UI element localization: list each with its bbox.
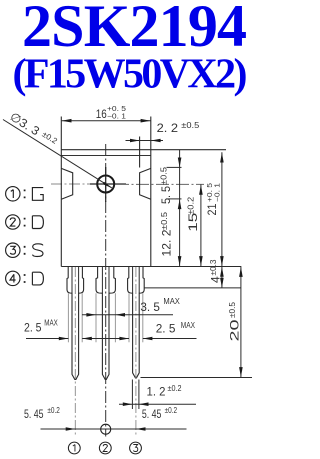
svg-text:(F15W50VX2): (F15W50VX2) <box>13 52 248 98</box>
svg-text:5. 5: 5. 5 <box>159 186 173 204</box>
svg-text:−0. 1: −0. 1 <box>214 183 221 202</box>
svg-text:±0.2: ±0.2 <box>47 406 60 415</box>
svg-text:±0.5: ±0.5 <box>228 301 237 318</box>
svg-text:+0. 5: +0. 5 <box>207 183 214 202</box>
svg-text:5. 45: 5. 45 <box>142 407 162 421</box>
svg-text:12. 2: 12. 2 <box>159 229 173 256</box>
svg-text:3. 5: 3. 5 <box>140 300 160 314</box>
svg-text:1. 2: 1. 2 <box>147 385 166 399</box>
svg-text:21: 21 <box>205 203 219 215</box>
svg-text:±0.5: ±0.5 <box>159 166 168 185</box>
svg-text:2. 5: 2. 5 <box>156 321 176 335</box>
svg-text:±0.5: ±0.5 <box>160 211 169 230</box>
svg-text:±0.2: ±0.2 <box>165 406 178 415</box>
svg-text:±0.5: ±0.5 <box>181 121 200 130</box>
svg-text:±0.2: ±0.2 <box>40 130 59 146</box>
svg-text:−0. 1: −0. 1 <box>107 114 126 121</box>
svg-text:2. 2: 2. 2 <box>157 121 179 135</box>
svg-text:5. 45: 5. 45 <box>24 407 44 421</box>
svg-text:±0.3: ±0.3 <box>209 259 218 276</box>
svg-text:∅3. 3: ∅3. 3 <box>7 109 42 138</box>
svg-text:2. 5: 2. 5 <box>24 321 42 335</box>
svg-text:MAX: MAX <box>181 321 196 330</box>
svg-text:MAX: MAX <box>44 318 58 327</box>
svg-text:±0.2: ±0.2 <box>168 384 182 393</box>
svg-text:16: 16 <box>96 107 107 121</box>
svg-text:20: 20 <box>228 319 242 342</box>
svg-text:4: 4 <box>209 276 223 283</box>
svg-text:MAX: MAX <box>163 297 180 306</box>
svg-text:±0.2: ±0.2 <box>186 196 195 215</box>
svg-text:+0. 5: +0. 5 <box>107 106 126 113</box>
svg-text:2SK2194: 2SK2194 <box>22 0 247 59</box>
